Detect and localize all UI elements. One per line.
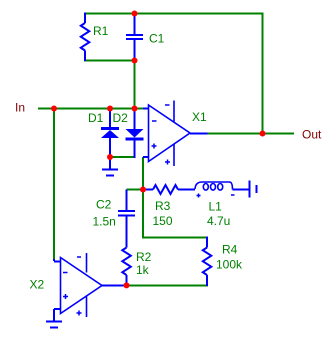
svg-text:D2: D2 xyxy=(113,111,129,125)
op-amp X2 xyxy=(54,259,127,309)
capacitor C1 xyxy=(126,13,143,62)
ground below D1 D2 xyxy=(102,157,118,176)
wire top feedback xyxy=(84,13,264,15)
wire output xyxy=(208,133,295,135)
wire X1 plus input down xyxy=(142,157,144,238)
wire In to X2 minus input xyxy=(53,109,55,260)
svg-text:R3: R3 xyxy=(155,199,171,213)
resistor R2 xyxy=(122,238,131,286)
svg-text:R1: R1 xyxy=(93,24,109,38)
svg-text:100k: 100k xyxy=(216,258,243,272)
svg-text:X2: X2 xyxy=(30,278,45,292)
wire In horizontal xyxy=(38,108,143,110)
capacitor C2 xyxy=(118,190,135,238)
wire node to C2 xyxy=(127,189,144,191)
svg-text:C1: C1 xyxy=(149,32,165,46)
svg-text:L1: L1 xyxy=(209,200,223,214)
svg-text:D1: D1 xyxy=(88,111,104,125)
resistor R3 xyxy=(143,185,191,194)
wire right vertical feedback xyxy=(262,13,264,134)
resistor R4 xyxy=(203,237,212,287)
battery xyxy=(250,181,257,198)
inductor L1 xyxy=(191,189,249,191)
svg-text:1.5n: 1.5n xyxy=(93,215,116,229)
svg-text:X1: X1 xyxy=(192,110,207,124)
wire R4 bottom to R2 node xyxy=(127,285,209,287)
diode D1 xyxy=(101,108,119,131)
diode D2 xyxy=(126,108,144,141)
resistor R1 xyxy=(81,13,90,62)
svg-text:R2: R2 xyxy=(136,250,152,264)
svg-text:4.7u: 4.7u xyxy=(207,214,230,228)
svg-text:C2: C2 xyxy=(96,198,112,212)
junction node dots xyxy=(51,11,266,289)
svg-text:R4: R4 xyxy=(222,243,238,257)
svg-text:In: In xyxy=(15,101,25,115)
ground at X2 plus input xyxy=(46,309,62,328)
svg-text:150: 150 xyxy=(153,214,173,228)
op-amp X1 xyxy=(143,109,208,158)
svg-text:Out: Out xyxy=(302,128,322,142)
wire C1 to In node xyxy=(134,61,136,109)
wire R1 C1 bottom xyxy=(84,60,135,62)
svg-text:1k: 1k xyxy=(136,263,150,277)
wire diode bottom xyxy=(110,156,135,158)
wire R4 top xyxy=(142,237,207,239)
